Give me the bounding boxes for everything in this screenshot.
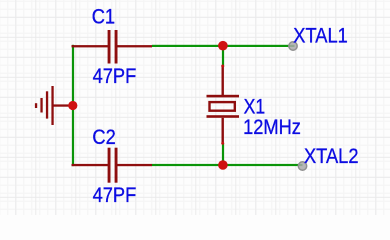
ground xyxy=(35,86,71,125)
svg-text:C2: C2 xyxy=(92,126,115,149)
svg-text:47PF: 47PF xyxy=(93,184,137,207)
node XTAL2 terminal xyxy=(298,162,306,170)
wire: crystal bottom branch from X1 pin down to bottom net xyxy=(222,143,224,166)
crystal X1 xyxy=(207,65,240,145)
svg-text:XTAL2: XTAL2 xyxy=(304,145,358,168)
node XTAL1 terminal xyxy=(289,42,297,50)
wire: crystal top branch from top net down to X1 pin xyxy=(222,45,224,67)
junction: ground to left net xyxy=(68,101,77,110)
svg-text:C1: C1 xyxy=(92,6,115,29)
capacitor C1 xyxy=(72,30,153,64)
junction: bottom net at crystal branch xyxy=(218,160,228,170)
wire: top net from C1 right pin to XTAL1 terminal xyxy=(152,45,295,47)
svg-text:XTAL1: XTAL1 xyxy=(293,24,347,47)
capacitor C2 xyxy=(72,148,153,183)
wire: left vertical net from C1 pin corner down to C2 row xyxy=(72,45,74,166)
junction: top net at crystal branch xyxy=(218,41,228,51)
svg-text:12MHz: 12MHz xyxy=(243,116,301,139)
svg-text:47PF: 47PF xyxy=(93,65,137,88)
wire: bottom net from C2 right pin to XTAL2 terminal xyxy=(152,164,303,166)
